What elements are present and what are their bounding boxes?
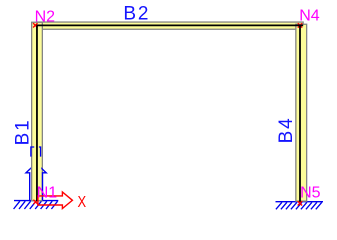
svg-text:N2: N2 [35, 9, 56, 26]
column B1 axis line [36, 26, 38, 201]
svg-text:B1: B1 [12, 119, 33, 146]
support N5 (fixed, hatched ground) [276, 202, 324, 210]
hatch strokes N1 [14, 201, 20, 209]
node N5 marker [298, 201, 302, 205]
support line N5 [276, 201, 324, 203]
svg-text:B4: B4 [276, 117, 297, 144]
svg-text:N5: N5 [300, 184, 321, 201]
hatch strokes N5 [276, 202, 282, 209]
node N4 marker [298, 23, 302, 27]
column B1 (member band) [32, 22, 43, 201]
svg-text:N4: N4 [299, 8, 320, 25]
column B4 (member band) [296, 24, 307, 201]
Z axis arrow at N1 (hollow, clipped by column band) [26, 163, 46, 200]
beam B2 axis line [36, 24, 303, 26]
Z label (clipped by column, visible nubs) [31, 147, 41, 157]
svg-text:B2: B2 [123, 3, 150, 24]
column B4 axis line [299, 26, 301, 202]
svg-text:X: X [78, 194, 87, 211]
beam B2 (member band) [37, 22, 303, 29]
support N1 (fixed, hatched ground) [14, 201, 59, 209]
svg-text:N1: N1 [37, 185, 58, 202]
X axis arrow at N1 (hollow red) [38, 192, 73, 209]
support line N1 [14, 200, 58, 202]
node N2 marker [33, 23, 37, 27]
node N1 marker [33, 200, 37, 204]
